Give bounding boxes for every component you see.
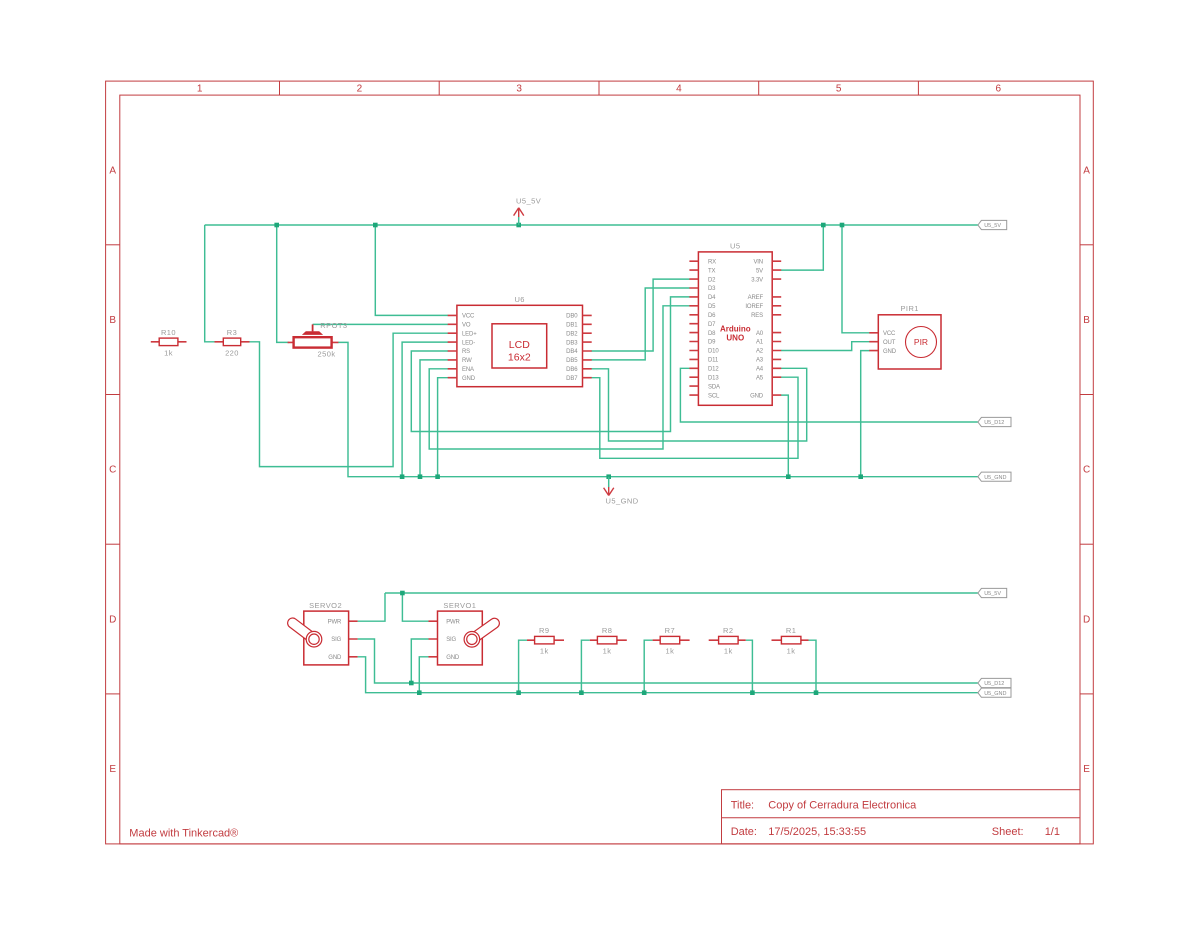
svg-text:DB4: DB4	[566, 349, 578, 355]
svg-text:250k: 250k	[317, 350, 335, 359]
svg-text:R8: R8	[602, 626, 613, 635]
resistor R1	[772, 626, 809, 656]
svg-text:RW: RW	[462, 358, 472, 364]
wire SERVO2 PWR to rail	[358, 593, 385, 621]
svg-text:5V: 5V	[756, 268, 763, 274]
wire rail to R3 left	[205, 225, 216, 342]
junction GND rail R2	[750, 690, 755, 695]
wire R9 to GND rail	[519, 640, 527, 693]
svg-text:1k: 1k	[540, 647, 549, 656]
junction GND rail R7	[642, 690, 647, 695]
svg-text:VIN: VIN	[753, 259, 763, 265]
svg-text:U5_5V: U5_5V	[516, 197, 541, 206]
svg-text:SCL: SCL	[708, 393, 720, 399]
net flag U5_D12 bottom	[978, 678, 1011, 687]
row divider D|E right	[1080, 693, 1093, 695]
junction GND rail R9	[516, 690, 521, 695]
wire R7 to GND rail	[644, 640, 652, 693]
svg-text:U5: U5	[730, 241, 741, 250]
svg-text:R10: R10	[161, 328, 176, 337]
svg-text:OUT: OUT	[883, 340, 896, 346]
net flag U5_GND bottom	[978, 688, 1011, 697]
junction GND rail R8	[579, 690, 584, 695]
svg-text:D3: D3	[708, 286, 716, 292]
wire LCD RW to GND rail	[420, 360, 448, 477]
svg-text:R2: R2	[723, 626, 734, 635]
wire R8 to GND rail	[581, 640, 589, 693]
potentiometer RPOT3	[288, 321, 348, 359]
wire Arduino GND to GND rail	[781, 395, 788, 477]
junction servo rail SERVO1 PWR	[400, 591, 405, 596]
wire LCD ENA to Arduino D5	[429, 306, 689, 449]
column divider 5|6	[917, 81, 919, 95]
svg-text:RPOT3: RPOT3	[320, 321, 347, 330]
svg-text:Sheet:: Sheet:	[992, 826, 1024, 838]
svg-text:1/1: 1/1	[1045, 826, 1060, 838]
wire LCD DB7 to Arduino A5	[591, 377, 798, 458]
svg-text:ENA: ENA	[462, 367, 474, 373]
net flag U5_GND	[978, 472, 1011, 481]
svg-text:U5_D12: U5_D12	[984, 681, 1004, 687]
svg-text:VCC: VCC	[462, 314, 475, 320]
wire PIR GND to GND rail	[861, 351, 870, 477]
svg-text:A3: A3	[756, 358, 764, 364]
svg-text:1k: 1k	[603, 647, 612, 656]
wire Arduino 5V to rail	[781, 225, 823, 270]
svg-text:D9: D9	[708, 340, 716, 346]
svg-text:DB2: DB2	[566, 331, 578, 337]
svg-text:1k: 1k	[164, 348, 173, 357]
svg-text:A5: A5	[756, 375, 764, 381]
svg-text:3: 3	[516, 84, 522, 95]
junction GND Arduino	[786, 474, 791, 479]
svg-text:D8: D8	[708, 331, 716, 337]
resistor R9	[527, 626, 564, 656]
svg-text:Made with Tinkercad®: Made with Tinkercad®	[129, 828, 238, 840]
row divider B|C left	[106, 394, 120, 396]
wire rail to SERVO1 PWR	[402, 593, 428, 621]
svg-text:IOREF: IOREF	[745, 304, 763, 310]
row divider A|B left	[106, 244, 120, 246]
svg-text:PIR: PIR	[914, 337, 928, 347]
svg-text:PIR1: PIR1	[900, 304, 918, 313]
junction GND LED-	[400, 474, 405, 479]
svg-text:R3: R3	[227, 328, 238, 337]
row divider C|D right	[1080, 543, 1093, 545]
svg-text:4: 4	[676, 84, 682, 95]
svg-text:UNO: UNO	[726, 334, 744, 343]
svg-text:DB0: DB0	[566, 314, 578, 320]
title block divider	[722, 817, 1081, 819]
svg-text:U5_GND: U5_GND	[984, 691, 1006, 697]
wire R3 right to LCD LED+	[248, 333, 448, 466]
svg-text:U5_5V: U5_5V	[984, 223, 1001, 229]
svg-text:B: B	[109, 315, 116, 326]
row divider A|B right	[1080, 244, 1093, 246]
net flag U5_D12	[978, 417, 1011, 426]
sheet border outer	[106, 81, 1094, 844]
Arduino U5	[689, 241, 781, 405]
junction D12 rail SERVO1 SIG	[409, 681, 414, 686]
wire rail to PIR VCC	[842, 225, 870, 333]
svg-text:1k: 1k	[724, 647, 733, 656]
svg-text:SIG: SIG	[446, 637, 456, 643]
row divider C|D left	[106, 543, 120, 545]
svg-text:Date:: Date:	[731, 826, 757, 838]
svg-text:LED+: LED+	[462, 331, 477, 337]
svg-text:Title:: Title:	[731, 800, 754, 812]
svg-text:GND: GND	[328, 655, 342, 661]
svg-text:3.3V: 3.3V	[751, 277, 763, 283]
wire SERVO2 SIG to D12 rail	[358, 639, 978, 683]
net flag U5_5V servo rail	[978, 588, 1007, 597]
resistor R2	[709, 626, 746, 656]
svg-text:RS: RS	[462, 349, 470, 355]
svg-text:DB3: DB3	[566, 340, 578, 346]
junction rail PIR VCC	[840, 223, 845, 228]
svg-text:17/5/2025, 15:33:55: 17/5/2025, 15:33:55	[768, 826, 866, 838]
wire SERVO2 GND to GND rail	[358, 657, 978, 693]
wire R1 to GND rail	[809, 640, 817, 693]
junction GND LCD GND	[435, 474, 440, 479]
wire RPOT3 wiper to LCD VO	[313, 323, 449, 325]
row divider B|C right	[1080, 394, 1093, 396]
svg-text:D2: D2	[708, 277, 716, 283]
power symbol U5_5V	[514, 197, 542, 226]
junction GND PIR	[858, 474, 863, 479]
svg-text:1: 1	[197, 84, 203, 95]
svg-text:PWR: PWR	[446, 619, 460, 625]
resistor R3	[215, 328, 250, 358]
svg-text:D: D	[1083, 614, 1090, 625]
svg-text:U5_D12: U5_D12	[984, 420, 1004, 426]
ground symbol U5_GND	[604, 477, 639, 506]
svg-text:U5_GND: U5_GND	[606, 497, 639, 506]
wire Arduino A2 to PIR OUT	[781, 342, 870, 351]
junction GND rail R1	[814, 690, 819, 695]
svg-text:A4: A4	[756, 367, 764, 373]
svg-text:R7: R7	[665, 626, 676, 635]
svg-text:VCC: VCC	[883, 331, 896, 337]
column divider 3|4	[598, 81, 600, 95]
wire SERVO1 GND to GND rail	[419, 657, 428, 693]
row divider D|E left	[106, 693, 120, 695]
wire LCD GND to GND rail	[438, 378, 449, 477]
svg-text:RES: RES	[751, 313, 763, 319]
wire rail to LCD VCC	[375, 225, 448, 315]
junction GND RW	[418, 474, 423, 479]
svg-text:A1: A1	[756, 340, 764, 346]
resistor R7	[653, 626, 690, 656]
svg-text:AREF: AREF	[748, 295, 764, 301]
svg-text:A: A	[1083, 165, 1090, 176]
junction rail Arduino 5V	[821, 223, 826, 228]
svg-text:DB7: DB7	[566, 376, 578, 382]
junction rail RPOT3	[274, 223, 279, 228]
wire LCD LED- to GND rail	[402, 342, 448, 477]
svg-text:PWR: PWR	[328, 619, 342, 625]
title block box	[722, 790, 1081, 844]
svg-text:16x2: 16x2	[508, 352, 531, 364]
svg-text:SERVO1: SERVO1	[443, 601, 476, 610]
svg-text:D6: D6	[708, 313, 716, 319]
svg-text:DB1: DB1	[566, 323, 578, 329]
wire LCD DB4 to Arduino D2	[591, 279, 689, 351]
svg-text:VO: VO	[462, 323, 471, 329]
junction GND symbol	[606, 474, 611, 479]
svg-text:D5: D5	[708, 304, 716, 310]
svg-text:D4: D4	[708, 295, 716, 301]
svg-text:GND: GND	[446, 655, 460, 661]
net flag U5_5V top	[978, 220, 1007, 229]
svg-text:220: 220	[225, 348, 239, 357]
column divider 4|5	[758, 81, 760, 95]
svg-text:RX: RX	[708, 259, 716, 265]
wire rail to RPOT3 left	[277, 225, 289, 342]
wire 5V top rail	[205, 224, 978, 226]
wire LCD RS to Arduino D4	[411, 297, 689, 432]
svg-text:A2: A2	[756, 349, 764, 355]
svg-text:1k: 1k	[787, 647, 796, 656]
svg-text:U6: U6	[514, 295, 525, 304]
svg-text:1k: 1k	[665, 647, 674, 656]
svg-text:DB6: DB6	[566, 367, 578, 373]
svg-text:D10: D10	[708, 349, 719, 355]
svg-text:R9: R9	[539, 626, 550, 635]
svg-text:DB5: DB5	[566, 358, 578, 364]
wire SERVO1 SIG to D12 rail	[411, 639, 428, 683]
svg-text:A: A	[109, 165, 116, 176]
svg-text:A0: A0	[756, 331, 764, 337]
junction GND rail SERVO1 GND	[417, 690, 422, 695]
svg-text:2: 2	[357, 84, 363, 95]
column divider 1|2	[279, 81, 281, 95]
servo SERVO2	[286, 601, 358, 665]
svg-text:TX: TX	[708, 268, 716, 274]
sheet border inner	[120, 95, 1080, 844]
wire LCD DB6 to Arduino A4	[591, 368, 806, 441]
svg-text:B: B	[1083, 315, 1090, 326]
LCD U6	[448, 295, 592, 387]
svg-text:5: 5	[836, 84, 842, 95]
svg-text:E: E	[1083, 764, 1090, 775]
junction rail LCD VCC	[373, 223, 378, 228]
svg-text:U5_GND: U5_GND	[984, 475, 1006, 481]
svg-text:D7: D7	[708, 322, 716, 328]
svg-text:D: D	[109, 614, 116, 625]
servo SERVO1	[429, 601, 502, 665]
svg-text:GND: GND	[462, 376, 476, 382]
PIR sensor PIR1	[869, 304, 941, 369]
svg-text:E: E	[109, 764, 116, 775]
junction rail 5V symbol	[516, 223, 521, 228]
column divider 2|3	[438, 81, 440, 95]
svg-text:LED-: LED-	[462, 340, 475, 346]
svg-text:SIG: SIG	[331, 637, 341, 643]
svg-text:D13: D13	[708, 375, 719, 381]
svg-text:D11: D11	[708, 358, 719, 364]
svg-text:SERVO2: SERVO2	[309, 601, 342, 610]
svg-text:6: 6	[996, 84, 1002, 95]
svg-text:Arduino: Arduino	[720, 325, 751, 334]
wire GND rail	[338, 342, 978, 476]
wire LCD DB5 to Arduino D3	[591, 288, 689, 360]
resistor R10	[151, 328, 187, 358]
svg-text:GND: GND	[883, 349, 897, 355]
svg-text:LCD: LCD	[509, 339, 530, 351]
svg-text:GND: GND	[750, 393, 764, 399]
svg-text:Copy of Cerradura Electronica: Copy of Cerradura Electronica	[768, 800, 917, 812]
svg-text:C: C	[109, 465, 116, 476]
svg-text:R1: R1	[786, 626, 797, 635]
svg-text:U5_5V: U5_5V	[984, 591, 1001, 597]
wire R2 to GND rail	[746, 640, 753, 693]
resistor R8	[590, 626, 627, 656]
svg-text:C: C	[1083, 465, 1090, 476]
svg-text:D12: D12	[708, 367, 719, 373]
svg-text:SDA: SDA	[708, 384, 720, 390]
wire 5V servo rail	[385, 592, 978, 594]
wire Arduino D12 to flag	[680, 368, 978, 422]
